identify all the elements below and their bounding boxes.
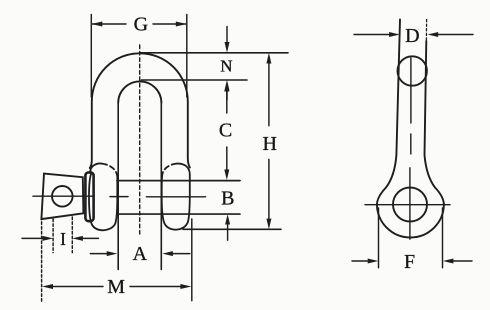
G extension line right [186, 15, 188, 98]
M extension line left (dashed) [41, 217, 43, 302]
svg-text:C: C [219, 120, 232, 142]
svg-text:M: M [107, 276, 125, 298]
M dimension line right segment [130, 286, 183, 288]
wire: inner left leg / A extension line [117, 104, 119, 270]
F left arrow [352, 260, 369, 262]
N upper arrow (down) [226, 27, 228, 45]
A right arrow [171, 253, 190, 255]
screw pin top edge line [117, 180, 240, 182]
leg right edge (solid part) flaring into eye boss [425, 41, 444, 205]
A left arrow [90, 253, 108, 255]
M extension line right [191, 219, 193, 301]
B lower arrow (up) [227, 218, 229, 240]
svg-text:B: B [221, 188, 234, 210]
N lower arrow (up) [226, 89, 228, 100]
wire: outer right leg [188, 102, 190, 168]
H top extension line [140, 52, 288, 54]
N bottom extension line [142, 79, 248, 81]
C dimension arrow up [226, 90, 228, 113]
H dimension line lower [268, 159, 270, 220]
G extension line left [90, 15, 92, 98]
svg-text:F: F [404, 251, 415, 273]
I right arrow [81, 237, 99, 239]
screw pin bottom edge line [117, 213, 240, 215]
pin collar flange [85, 172, 93, 221]
pin hole in eye [393, 188, 427, 222]
right ear of shackle body [162, 164, 177, 177]
M dimension line left segment [51, 286, 103, 288]
svg-text:I: I [60, 229, 66, 249]
I extension line right (dashed) [71, 217, 73, 253]
svg-text:H: H [262, 133, 276, 155]
crosshair horizontal centerline of eye [365, 204, 450, 206]
C dimension arrow down [226, 147, 228, 171]
small hole at top of leg [398, 56, 427, 85]
pin head hole [52, 186, 73, 207]
F extension line left [378, 208, 380, 268]
eye boss bottom arc [377, 204, 444, 237]
H bottom extension line [183, 228, 281, 230]
leg centerline dash [410, 134, 412, 154]
pin centerline (dashed) [33, 195, 94, 197]
leg left edge flaring into eye boss [377, 20, 400, 205]
wire: inner right leg / A extension line [160, 104, 162, 270]
D right arrow [436, 34, 473, 36]
svg-text:A: A [133, 243, 148, 265]
svg-text:D: D [405, 25, 419, 47]
wire: outer left leg [90, 102, 92, 168]
svg-text:N: N [220, 57, 232, 76]
leg centerline segment through top hole [410, 58, 412, 123]
G dimension line + arrows [93, 23, 127, 25]
I extension line left (dashed) [52, 219, 54, 253]
I left arrow [22, 237, 44, 239]
shackle bow outer arc [92, 53, 188, 101]
leg right edge top (dotted) / D extension [425, 20, 427, 42]
left ear of shackle body [90, 163, 102, 174]
pin head (trapezoid) [41, 174, 83, 220]
centerline of bow (dashed) [139, 45, 141, 234]
F right arrow [452, 260, 472, 262]
shackle bow inner arch [118, 81, 161, 103]
D left arrow [354, 34, 391, 36]
F extension line right [442, 208, 444, 268]
H dimension line upper [268, 62, 270, 126]
crosshair vertical centerline of eye [409, 168, 411, 239]
svg-text:G: G [134, 14, 148, 36]
